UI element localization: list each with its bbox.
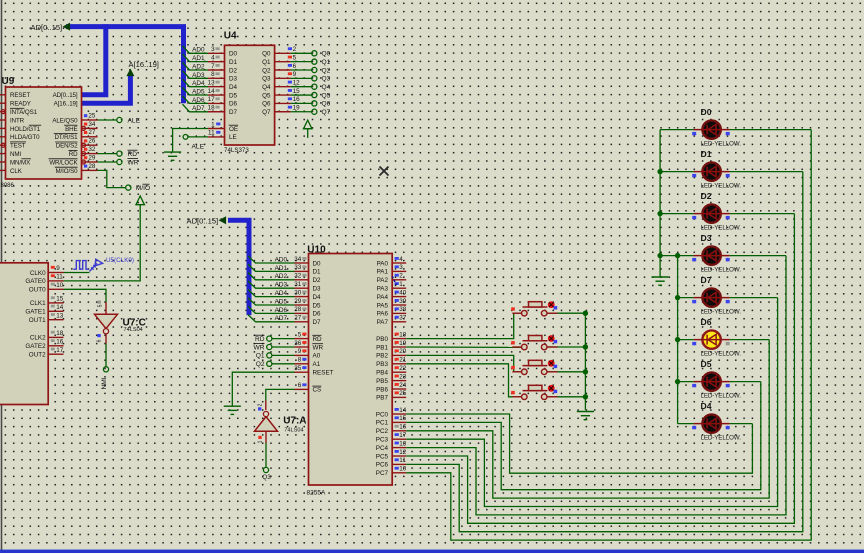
svg-text:ALE: ALE bbox=[128, 118, 141, 125]
svg-text:D0: D0 bbox=[701, 107, 712, 117]
svg-text:AD[0..15]: AD[0..15] bbox=[53, 92, 78, 99]
LED D0 bbox=[694, 120, 730, 138]
U10 pin numbers right bbox=[395, 257, 399, 260]
svg-text:LED-YELLOW.: LED-YELLOW. bbox=[701, 308, 742, 315]
svg-text:U7:A: U7:A bbox=[283, 416, 306, 427]
svg-text:BHE: BHE bbox=[65, 126, 77, 133]
svg-text:D0: D0 bbox=[229, 51, 238, 58]
LED D2 bbox=[694, 204, 730, 222]
svg-text:2: 2 bbox=[399, 273, 403, 280]
LED D7 pin squares bbox=[692, 300, 696, 303]
svg-text:27: 27 bbox=[294, 315, 302, 322]
svg-text:AD5: AD5 bbox=[275, 298, 288, 305]
svg-text:READY: READY bbox=[10, 101, 31, 108]
svg-text:13: 13 bbox=[399, 440, 407, 447]
svg-text:PA1: PA1 bbox=[377, 269, 389, 276]
wire U4 LE to ALE terminal bbox=[188, 136, 208, 138]
terminal circle M/IO bbox=[126, 185, 131, 190]
svg-text:25: 25 bbox=[88, 112, 96, 119]
svg-text:OUT2: OUT2 bbox=[29, 352, 46, 359]
LED left rail bbox=[659, 130, 661, 269]
svg-text:15: 15 bbox=[399, 415, 407, 422]
U9 pin numbers right bbox=[84, 114, 87, 117]
svg-text:Q2: Q2 bbox=[322, 67, 331, 74]
wire PB3 to button 4 bbox=[406, 364, 521, 397]
svg-text:AD7: AD7 bbox=[275, 315, 288, 322]
svg-text:M/IO/S0: M/IO/S0 bbox=[56, 168, 79, 175]
U4 pin numbers right bbox=[288, 47, 292, 50]
svg-text:Q6: Q6 bbox=[322, 101, 331, 108]
IC U10 8255A body bbox=[309, 254, 393, 486]
svg-text:AD0: AD0 bbox=[192, 47, 205, 54]
wire U9 RD to RD terminal bbox=[98, 153, 117, 155]
ground at U4 OE bbox=[164, 152, 181, 160]
svg-text:15: 15 bbox=[293, 88, 301, 95]
svg-text:Q1: Q1 bbox=[322, 59, 331, 66]
svg-text:M/IO: M/IO bbox=[136, 185, 150, 192]
svg-text:2: 2 bbox=[293, 46, 297, 53]
svg-text:A1: A1 bbox=[313, 361, 321, 368]
svg-text:LED-YELLOW.: LED-YELLOW. bbox=[701, 434, 742, 441]
svg-text:26: 26 bbox=[88, 138, 96, 145]
wire OUT0 to U7:C input bbox=[64, 289, 107, 302]
svg-text:D1: D1 bbox=[701, 149, 712, 159]
svg-text:13: 13 bbox=[208, 80, 216, 87]
LED D2 pin squares bbox=[692, 216, 696, 219]
svg-text:WR: WR bbox=[128, 160, 139, 167]
svg-text:LED-YELLOW.: LED-YELLOW. bbox=[701, 266, 742, 273]
terminal circle NMI bbox=[103, 367, 108, 372]
svg-text:AD6: AD6 bbox=[192, 97, 205, 104]
bus arrow AD[0..15] top bbox=[63, 23, 71, 31]
svg-text:38: 38 bbox=[399, 306, 407, 313]
svg-text:WR/LOCK: WR/LOCK bbox=[49, 159, 78, 166]
svg-text:D7: D7 bbox=[701, 275, 712, 285]
svg-text:D7: D7 bbox=[229, 109, 238, 116]
origin marker X bbox=[380, 167, 389, 176]
svg-text:AD4: AD4 bbox=[192, 80, 205, 87]
svg-text:Q4: Q4 bbox=[322, 84, 331, 91]
svg-text:PC1: PC1 bbox=[376, 420, 389, 427]
U9 pin stubs left bbox=[0, 95, 6, 171]
svg-text:D2: D2 bbox=[313, 277, 322, 284]
svg-text:CLK1: CLK1 bbox=[30, 300, 46, 307]
svg-text:18: 18 bbox=[208, 105, 216, 112]
svg-text:PB5: PB5 bbox=[376, 378, 388, 385]
svg-text:OE: OE bbox=[229, 126, 238, 133]
svg-text:PA2: PA2 bbox=[377, 277, 389, 284]
svg-text:U4: U4 bbox=[224, 31, 237, 42]
LED D3 pin squares bbox=[692, 258, 696, 261]
svg-text:D1: D1 bbox=[229, 59, 238, 66]
svg-text:D6: D6 bbox=[229, 101, 238, 108]
svg-text:Q3: Q3 bbox=[262, 474, 271, 481]
button 4 bbox=[512, 385, 557, 400]
svg-text:14: 14 bbox=[56, 304, 64, 311]
wire PC0 to LED bbox=[406, 414, 752, 473]
svg-text:PB1: PB1 bbox=[376, 344, 388, 351]
svg-text:7: 7 bbox=[211, 63, 215, 70]
LED D5 pin squares bbox=[692, 384, 696, 387]
svg-text:D5: D5 bbox=[313, 302, 322, 309]
wire bus taps AD0-AD7 to U10 bbox=[248, 256, 295, 263]
svg-text:8: 8 bbox=[298, 357, 302, 364]
svg-text:24: 24 bbox=[399, 382, 407, 389]
svg-text:33: 33 bbox=[294, 264, 302, 271]
wire PC3 to LED bbox=[406, 298, 777, 507]
svg-text:D0: D0 bbox=[313, 260, 322, 267]
svg-text:AD[0..15]: AD[0..15] bbox=[31, 23, 63, 32]
U9 inversion bubbles right side bbox=[82, 126, 86, 130]
U10 pin stubs left bbox=[295, 263, 407, 473]
svg-text:Q7: Q7 bbox=[262, 109, 271, 116]
svg-text:LED-YELLOW.: LED-YELLOW. bbox=[701, 224, 742, 231]
svg-text:23: 23 bbox=[399, 373, 407, 380]
svg-text:INTA/QS1: INTA/QS1 bbox=[10, 109, 38, 116]
svg-text:A[16..19]: A[16..19] bbox=[129, 60, 159, 69]
LED D4 bbox=[694, 414, 730, 432]
svg-text:CLK0: CLK0 bbox=[30, 270, 46, 277]
svg-text:PC2: PC2 bbox=[376, 428, 389, 435]
svg-text:AD3: AD3 bbox=[192, 72, 205, 79]
svg-text:WR: WR bbox=[313, 344, 324, 351]
svg-text:2: 2 bbox=[258, 403, 264, 406]
svg-text:AD1: AD1 bbox=[192, 55, 205, 62]
svg-text:1: 1 bbox=[211, 121, 215, 128]
svg-text:AD2: AD2 bbox=[192, 63, 205, 70]
svg-text:NMI: NMI bbox=[10, 151, 21, 158]
svg-text:6: 6 bbox=[298, 382, 302, 389]
wire PC2 to LED bbox=[406, 340, 769, 499]
svg-text:74LS04: 74LS04 bbox=[284, 428, 303, 434]
svg-text:AD5: AD5 bbox=[192, 88, 205, 95]
bus AD[0..15] lower (to U10) bbox=[228, 220, 249, 315]
svg-text:LED-YELLOW.: LED-YELLOW. bbox=[701, 140, 742, 147]
svg-text:4: 4 bbox=[399, 256, 403, 263]
wire PB1 to button 2 bbox=[406, 346, 521, 348]
svg-text:AD3: AD3 bbox=[275, 282, 288, 289]
wire U7:A input to Q3 terminal bbox=[265, 431, 267, 443]
bus AD[0..15] top (U9 to U4) bbox=[66, 24, 184, 103]
LED D6 bbox=[694, 330, 730, 348]
svg-text:32: 32 bbox=[294, 273, 302, 280]
svg-text:LED-YELLOW.: LED-YELLOW. bbox=[701, 182, 742, 189]
bus A[16..19] bbox=[82, 74, 131, 103]
svg-text:9: 9 bbox=[298, 348, 302, 355]
svg-text:10: 10 bbox=[56, 282, 64, 289]
svg-text:LED-YELLOW.: LED-YELLOW. bbox=[701, 392, 742, 399]
svg-text:AD2: AD2 bbox=[275, 273, 288, 280]
svg-text:34: 34 bbox=[88, 121, 96, 128]
terminal circle ALE at U4 LE bbox=[183, 135, 188, 140]
svg-text:11: 11 bbox=[208, 130, 215, 137]
svg-text:39: 39 bbox=[399, 298, 407, 305]
svg-text:AD7: AD7 bbox=[192, 105, 205, 112]
svg-text:30: 30 bbox=[294, 289, 302, 296]
wire bus taps AD0-AD7 to U4 bbox=[183, 46, 209, 54]
svg-text:27: 27 bbox=[88, 129, 96, 136]
svg-text:15: 15 bbox=[56, 296, 64, 303]
svg-text:HLDA/GT0: HLDA/GT0 bbox=[10, 134, 40, 141]
wire U9 M/IO to M/IO terminal bbox=[98, 170, 126, 187]
svg-text:28: 28 bbox=[88, 163, 96, 170]
svg-text:RD: RD bbox=[313, 336, 323, 343]
svg-text:34: 34 bbox=[294, 256, 302, 263]
svg-text:AD[0..15]: AD[0..15] bbox=[187, 217, 219, 226]
svg-text:PA7: PA7 bbox=[377, 319, 389, 326]
svg-text:Q1: Q1 bbox=[262, 59, 271, 66]
svg-text:12: 12 bbox=[293, 80, 301, 87]
svg-text:PA4: PA4 bbox=[377, 294, 389, 301]
svg-text:8: 8 bbox=[211, 71, 215, 78]
mouse cursor near PA2 bbox=[392, 276, 396, 285]
U10 pin stubs right bbox=[392, 262, 406, 264]
svg-text:D7: D7 bbox=[313, 319, 322, 326]
svg-text:29: 29 bbox=[88, 154, 96, 161]
svg-text:TEST: TEST bbox=[10, 143, 26, 150]
svg-text:AD6: AD6 bbox=[275, 307, 288, 314]
LED D6 pin squares bbox=[692, 342, 696, 345]
svg-text:11: 11 bbox=[56, 274, 63, 281]
svg-text:8086: 8086 bbox=[1, 183, 15, 189]
svg-text:19: 19 bbox=[399, 340, 407, 347]
wire PB2 to button 3 bbox=[406, 355, 521, 371]
svg-text:OUT1: OUT1 bbox=[29, 317, 46, 324]
svg-text:WR: WR bbox=[254, 344, 265, 351]
svg-text:D6: D6 bbox=[701, 317, 712, 327]
svg-text:17: 17 bbox=[399, 432, 407, 439]
svg-text:19: 19 bbox=[293, 105, 301, 112]
8253 pin stubs bbox=[48, 273, 63, 355]
ground at U10 RESET bbox=[224, 406, 241, 414]
LED second rail bbox=[677, 256, 679, 424]
window bottom blue bar bbox=[0, 550, 864, 553]
LED D1 bbox=[694, 162, 730, 180]
svg-text:11: 11 bbox=[399, 457, 406, 464]
bus arrow AD[0..15] lower bbox=[219, 216, 227, 224]
svg-text:31: 31 bbox=[294, 281, 302, 288]
svg-text:AD1: AD1 bbox=[275, 265, 288, 272]
svg-text:PA6: PA6 bbox=[377, 311, 389, 318]
IC U9 8086 body bbox=[6, 87, 82, 179]
svg-text:PC3: PC3 bbox=[376, 437, 389, 444]
svg-text:9: 9 bbox=[293, 71, 297, 78]
svg-text:RD: RD bbox=[128, 151, 138, 158]
svg-text:LE: LE bbox=[229, 134, 237, 141]
svg-text:8255A: 8255A bbox=[307, 490, 326, 497]
wire PC4 to LED bbox=[406, 256, 786, 515]
terminal circle WR bbox=[117, 159, 122, 164]
svg-text:D3: D3 bbox=[701, 233, 712, 243]
svg-text:Q4: Q4 bbox=[262, 84, 271, 91]
svg-text:18: 18 bbox=[56, 330, 64, 337]
LED D7 bbox=[694, 288, 730, 306]
svg-text:D4: D4 bbox=[313, 294, 322, 301]
LED D1 pin squares bbox=[692, 174, 696, 177]
svg-text:36: 36 bbox=[294, 340, 302, 347]
terminal circle ALE bbox=[117, 117, 122, 122]
svg-text:AD0: AD0 bbox=[275, 256, 288, 263]
LED D3 bbox=[694, 246, 730, 264]
svg-text:CLK2: CLK2 bbox=[30, 335, 46, 342]
svg-text:4: 4 bbox=[211, 54, 215, 61]
svg-text:17: 17 bbox=[208, 96, 216, 103]
svg-text:D4: D4 bbox=[701, 401, 712, 411]
wire GATE0 to power arrow bbox=[64, 205, 141, 281]
svg-text:21: 21 bbox=[399, 357, 407, 364]
svg-text:22: 22 bbox=[399, 365, 407, 372]
power arrow at GATE0 bbox=[135, 196, 145, 205]
svg-text:RESET: RESET bbox=[10, 92, 30, 99]
svg-text:Q3: Q3 bbox=[322, 76, 331, 83]
svg-text:D5: D5 bbox=[701, 359, 712, 369]
svg-text:DEN/S2: DEN/S2 bbox=[56, 143, 78, 150]
svg-text:PB2: PB2 bbox=[376, 353, 388, 360]
svg-text:RESET: RESET bbox=[313, 370, 334, 377]
wire U10 RESET to ground bbox=[232, 372, 294, 406]
svg-text:Q7: Q7 bbox=[322, 109, 331, 116]
svg-text:3: 3 bbox=[211, 46, 215, 53]
wire PC6 to LED bbox=[406, 172, 803, 532]
U9 inversion bubbles INTA TEST bbox=[1, 110, 5, 114]
wire U4 OE to ground bbox=[173, 129, 208, 153]
svg-text:18: 18 bbox=[399, 331, 407, 338]
svg-text:PA3: PA3 bbox=[377, 286, 389, 293]
svg-text:CLK: CLK bbox=[10, 168, 23, 175]
svg-text:16: 16 bbox=[293, 96, 301, 103]
svg-text:D2: D2 bbox=[229, 67, 238, 74]
svg-text:14: 14 bbox=[399, 407, 407, 414]
button 2 bbox=[512, 335, 557, 350]
terminals RD WR Q1 Q2 at U10 bbox=[272, 338, 295, 340]
svg-text:D4: D4 bbox=[229, 84, 238, 91]
wire PC7 to LED bbox=[406, 130, 811, 540]
svg-text:Q0: Q0 bbox=[322, 51, 331, 58]
inverter U7:C bbox=[95, 314, 118, 328]
wire U9 WR to WR terminal bbox=[98, 161, 117, 163]
button common rail to ground bbox=[547, 313, 586, 410]
8253 pin numbers bbox=[51, 266, 55, 269]
svg-text:Q1: Q1 bbox=[256, 353, 265, 360]
svg-text:U9: U9 bbox=[2, 76, 15, 87]
svg-text:D2: D2 bbox=[701, 191, 712, 201]
svg-text:1: 1 bbox=[258, 440, 264, 443]
LED output wires right bbox=[730, 129, 812, 131]
svg-text:Q5: Q5 bbox=[322, 92, 331, 99]
svg-text:Q2: Q2 bbox=[262, 67, 271, 74]
svg-text:D6: D6 bbox=[313, 311, 322, 318]
IC 8253 body (clipped at left) bbox=[0, 263, 48, 405]
svg-text:9: 9 bbox=[56, 265, 60, 272]
svg-text:40: 40 bbox=[399, 289, 407, 296]
svg-text:INTR: INTR bbox=[10, 117, 25, 124]
svg-text:5: 5 bbox=[293, 54, 297, 61]
svg-text:ALE: ALE bbox=[192, 144, 205, 151]
svg-text:PA5: PA5 bbox=[377, 302, 389, 309]
svg-text:1: 1 bbox=[399, 281, 403, 288]
svg-text:12: 12 bbox=[399, 449, 407, 456]
svg-text:RD: RD bbox=[255, 336, 265, 343]
svg-text:Q0: Q0 bbox=[262, 51, 271, 58]
svg-text:Q6: Q6 bbox=[262, 101, 271, 108]
U9 pin stubs right bbox=[82, 120, 98, 170]
svg-text:RD: RD bbox=[69, 151, 78, 158]
svg-text:5: 5 bbox=[98, 304, 104, 307]
wire PC5 to LED bbox=[406, 214, 794, 524]
svg-text:D3: D3 bbox=[229, 76, 238, 83]
svg-text:PB0: PB0 bbox=[376, 336, 388, 343]
window left border bbox=[1, 0, 3, 553]
svg-text:OUT0: OUT0 bbox=[29, 287, 46, 294]
svg-text:GATE0: GATE0 bbox=[25, 278, 46, 285]
svg-text:25: 25 bbox=[399, 390, 407, 397]
svg-text:PB6: PB6 bbox=[376, 386, 388, 393]
power arrow near U4 Q7 bbox=[303, 120, 313, 129]
svg-text:A[16..19]: A[16..19] bbox=[54, 101, 78, 108]
LED D0 pin squares bbox=[692, 132, 696, 135]
svg-text:Q2: Q2 bbox=[256, 361, 265, 368]
LED D4 pin squares bbox=[692, 426, 696, 429]
terminal circle Q3 bbox=[263, 467, 268, 472]
svg-text:MN/MX: MN/MX bbox=[10, 159, 30, 166]
svg-text:PB3: PB3 bbox=[376, 361, 388, 368]
junction dots on button rail bbox=[583, 311, 588, 316]
svg-text:NMI: NMI bbox=[101, 377, 108, 389]
svg-text:PB7: PB7 bbox=[376, 395, 388, 402]
junction dots on LED rails bbox=[657, 169, 662, 174]
svg-text:LED-YELLOW.: LED-YELLOW. bbox=[701, 350, 742, 357]
svg-text:28: 28 bbox=[294, 306, 302, 313]
svg-text:74LS373: 74LS373 bbox=[224, 147, 249, 154]
svg-text:GATE2: GATE2 bbox=[25, 343, 46, 350]
generator U5(CLK0) clock symbol bbox=[73, 259, 102, 271]
svg-text:U10: U10 bbox=[307, 245, 326, 256]
svg-text:14: 14 bbox=[208, 88, 216, 95]
svg-text:32: 32 bbox=[88, 146, 96, 153]
wire U10 CS to U7:A output bbox=[266, 389, 295, 400]
button 3 bbox=[512, 360, 557, 375]
svg-text:35: 35 bbox=[294, 365, 302, 372]
ground at LED rail bbox=[652, 277, 669, 285]
svg-text:74LS04: 74LS04 bbox=[124, 327, 143, 333]
wire PB0 to button 1 bbox=[406, 313, 521, 338]
svg-text:3: 3 bbox=[399, 264, 403, 271]
svg-text:D3: D3 bbox=[313, 286, 322, 293]
svg-text:Q5: Q5 bbox=[262, 92, 271, 99]
svg-text:PB4: PB4 bbox=[376, 370, 388, 377]
svg-text:29: 29 bbox=[294, 298, 302, 305]
wire U9 ALE/QS0 to ALE terminal bbox=[98, 119, 117, 121]
svg-text:Q3: Q3 bbox=[262, 76, 271, 83]
svg-text:PC4: PC4 bbox=[376, 445, 389, 452]
svg-text:CS: CS bbox=[313, 387, 322, 394]
svg-text:10: 10 bbox=[399, 466, 407, 473]
svg-text:GATE1: GATE1 bbox=[25, 309, 46, 316]
svg-text:6: 6 bbox=[97, 339, 103, 342]
svg-text:PC6: PC6 bbox=[376, 462, 389, 469]
svg-text:16: 16 bbox=[399, 424, 407, 431]
svg-text:D5: D5 bbox=[229, 92, 238, 99]
svg-text:17: 17 bbox=[56, 347, 64, 354]
svg-text:PC5: PC5 bbox=[376, 453, 389, 460]
svg-text:HOLD/GT1: HOLD/GT1 bbox=[10, 126, 41, 133]
svg-text:D1: D1 bbox=[313, 269, 322, 276]
U4 pin stubs bbox=[208, 53, 291, 137]
svg-text:37: 37 bbox=[399, 315, 407, 322]
svg-text:16: 16 bbox=[56, 338, 64, 345]
wire CLK0 to clock generator bbox=[64, 272, 90, 274]
ground at buttons bbox=[577, 412, 594, 420]
